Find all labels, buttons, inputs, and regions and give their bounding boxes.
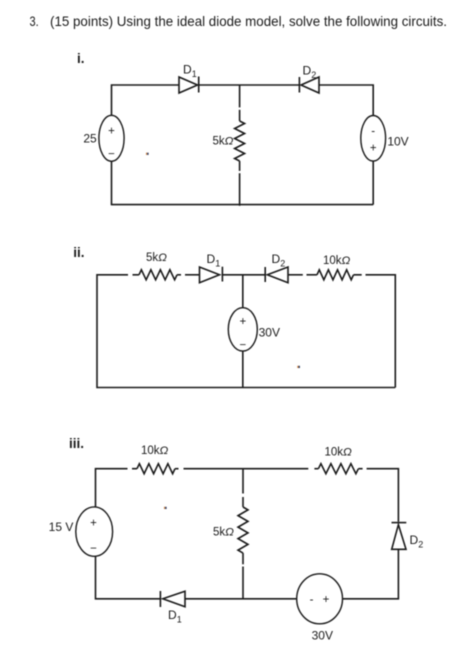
value label 5k ohm (circuit iii) bbox=[213, 527, 234, 539]
label D2 (circuit iii) bbox=[410, 533, 424, 550]
wire: D2 to 10k resistor (circuit ii) bbox=[288, 274, 317, 276]
wire: middle branch upper lead (circuit iii) bbox=[242, 469, 244, 507]
svg-text:D: D bbox=[183, 63, 192, 77]
wire: left-bottom segment (circuit i) bbox=[111, 161, 113, 204]
svg-text:10V: 10V bbox=[387, 135, 408, 149]
svg-text:+: + bbox=[370, 143, 377, 155]
label D1 (circuit iii) bbox=[168, 608, 182, 625]
voltage source 30V (circuit ii) bbox=[228, 308, 257, 352]
svg-text:10k: 10k bbox=[141, 445, 160, 457]
svg-text:+: + bbox=[239, 316, 246, 328]
svg-text:3.: 3. bbox=[30, 13, 39, 29]
wire: middle node to right 10k resistor (circuit iii) bbox=[243, 468, 318, 470]
diode D2 vertical (circuit iii) bbox=[392, 523, 407, 550]
wire: middle branch lower lead (circuit i) bbox=[239, 161, 241, 206]
svg-text:D: D bbox=[272, 252, 281, 266]
wire: 15V source to bottom-left corner (circuit iii) bbox=[96, 556, 161, 599]
wire: middle branch upper lead (circuit i) bbox=[239, 85, 241, 121]
value label 10k ohm (circuit ii) bbox=[323, 255, 351, 267]
label D1 (circuit i) bbox=[183, 63, 197, 80]
voltage source 15 V (circuit iii) bbox=[76, 507, 113, 556]
svg-text:+: + bbox=[90, 518, 97, 530]
wire: top-left corner to 5k resistor (circuit ii) bbox=[97, 275, 139, 306]
wire: 30V source to bottom rail (circuit ii) bbox=[242, 351, 244, 387]
svg-text:15 V: 15 V bbox=[49, 520, 74, 534]
label D1 (circuit ii) bbox=[207, 252, 221, 269]
svg-text:Ω: Ω bbox=[225, 527, 234, 539]
value label 5k ohm (circuit ii) bbox=[146, 252, 167, 264]
problem title text bbox=[30, 13, 448, 29]
wire: middle node down to 30V source (circuit ii) bbox=[242, 275, 244, 308]
svg-text:Ω: Ω bbox=[158, 252, 167, 264]
diode D1 (circuit i) bbox=[179, 77, 199, 94]
svg-text:−: − bbox=[239, 340, 246, 352]
svg-text:2: 2 bbox=[280, 259, 285, 269]
wire: top-left corner to left 10k resistor (circuit iii) bbox=[96, 469, 138, 507]
wire: top-left segment, source to diode D1 (circuit i) bbox=[112, 85, 180, 116]
svg-text:5k: 5k bbox=[213, 136, 225, 148]
svg-text:D: D bbox=[410, 533, 419, 547]
svg-text:Ω: Ω bbox=[343, 447, 352, 459]
svg-text:−: − bbox=[108, 148, 115, 160]
resistor 5k ohm vertical (circuit i) bbox=[235, 121, 245, 161]
svg-text:(15 points) Using the ideal di: (15 points) Using the ideal diode model,… bbox=[50, 13, 447, 29]
label D2 (circuit i) bbox=[303, 64, 317, 81]
svg-text:Ω: Ω bbox=[160, 445, 169, 457]
svg-text:Ω: Ω bbox=[342, 255, 351, 267]
svg-text:30V: 30V bbox=[312, 629, 333, 643]
wire: D1 to 30V source along bottom rail (circuit iii) bbox=[185, 598, 297, 600]
svg-text:−: − bbox=[90, 543, 97, 555]
svg-text:1: 1 bbox=[177, 615, 182, 625]
wire: top middle segment D1 to D2 through node (circuit i) bbox=[199, 84, 299, 86]
value label 10k ohm left (circuit iii) bbox=[141, 445, 169, 457]
svg-text:10k: 10k bbox=[325, 447, 344, 459]
wire: top-right segment, D2 to right branch (circuit i) bbox=[319, 85, 373, 116]
svg-text:+: + bbox=[108, 126, 115, 138]
stray ink dot (circuit ii) bbox=[297, 366, 300, 368]
wire: bottom rail (circuit i) bbox=[111, 204, 373, 206]
wire: D1 to D2 through middle node (circuit ii) bbox=[222, 274, 265, 276]
resistor 10k ohm right (circuit iii) bbox=[318, 464, 358, 474]
svg-text:2: 2 bbox=[418, 540, 423, 550]
svg-text:5k: 5k bbox=[213, 527, 225, 539]
wire: bottom rail (circuit ii) bbox=[97, 306, 395, 388]
svg-text:Ω: Ω bbox=[225, 136, 234, 148]
stray ink dot (circuit i) bbox=[146, 153, 149, 155]
svg-text:-: - bbox=[310, 594, 314, 606]
voltage source 10V (circuit i right) bbox=[361, 116, 386, 162]
wire: 30V source to bottom-right corner up to D2 (circuit iii) bbox=[343, 549, 399, 599]
svg-text:i.: i. bbox=[77, 51, 85, 66]
svg-text:-: - bbox=[371, 126, 375, 138]
resistor 5k ohm horizontal (circuit ii) bbox=[139, 270, 177, 280]
stray ink dot (circuit iii) bbox=[164, 507, 167, 509]
resistor 10k ohm horizontal (circuit ii) bbox=[317, 270, 353, 280]
svg-text:D: D bbox=[207, 252, 216, 266]
resistor 5k ohm vertical (circuit iii) bbox=[238, 507, 248, 553]
svg-text:30V: 30V bbox=[259, 326, 280, 340]
value label 10k ohm right (circuit iii) bbox=[325, 447, 353, 459]
diode D1 (circuit iii) bbox=[160, 591, 185, 607]
svg-text:1: 1 bbox=[192, 69, 197, 79]
svg-text:iii.: iii. bbox=[69, 436, 84, 451]
svg-text:1: 1 bbox=[215, 259, 220, 269]
wire: right-bottom segment (circuit i) bbox=[372, 161, 374, 205]
svg-text:D: D bbox=[168, 608, 177, 622]
svg-text:+: + bbox=[323, 594, 330, 606]
voltage source 30V (circuit iii) bbox=[297, 574, 343, 624]
diode D2 (circuit ii) bbox=[265, 267, 288, 283]
wire: right 10k to top-right corner down to D2 (circuit iii) bbox=[358, 469, 398, 522]
voltage source 25 V (circuit i left) bbox=[99, 115, 124, 161]
label D2 (circuit ii) bbox=[272, 252, 286, 269]
svg-text:ii.: ii. bbox=[73, 245, 84, 260]
value label 5k ohm (circuit i) bbox=[213, 136, 234, 148]
diode D2 (circuit i) bbox=[299, 77, 319, 93]
svg-text:25: 25 bbox=[83, 132, 97, 146]
diode D1 (circuit ii) bbox=[200, 267, 223, 283]
svg-text:10k: 10k bbox=[323, 255, 342, 267]
wire: 10k resistor to top-right corner (circuit ii) bbox=[354, 275, 396, 388]
resistor 10k ohm left (circuit iii) bbox=[137, 464, 175, 474]
svg-text:D: D bbox=[303, 64, 312, 78]
svg-text:2: 2 bbox=[311, 70, 316, 80]
svg-text:5k: 5k bbox=[146, 252, 158, 264]
wire: middle branch lower lead (circuit iii) bbox=[242, 553, 244, 599]
wire: left 10k to middle node (circuit iii) bbox=[175, 468, 243, 470]
wire: 5k resistor to diode D1 (circuit ii) bbox=[177, 274, 200, 276]
